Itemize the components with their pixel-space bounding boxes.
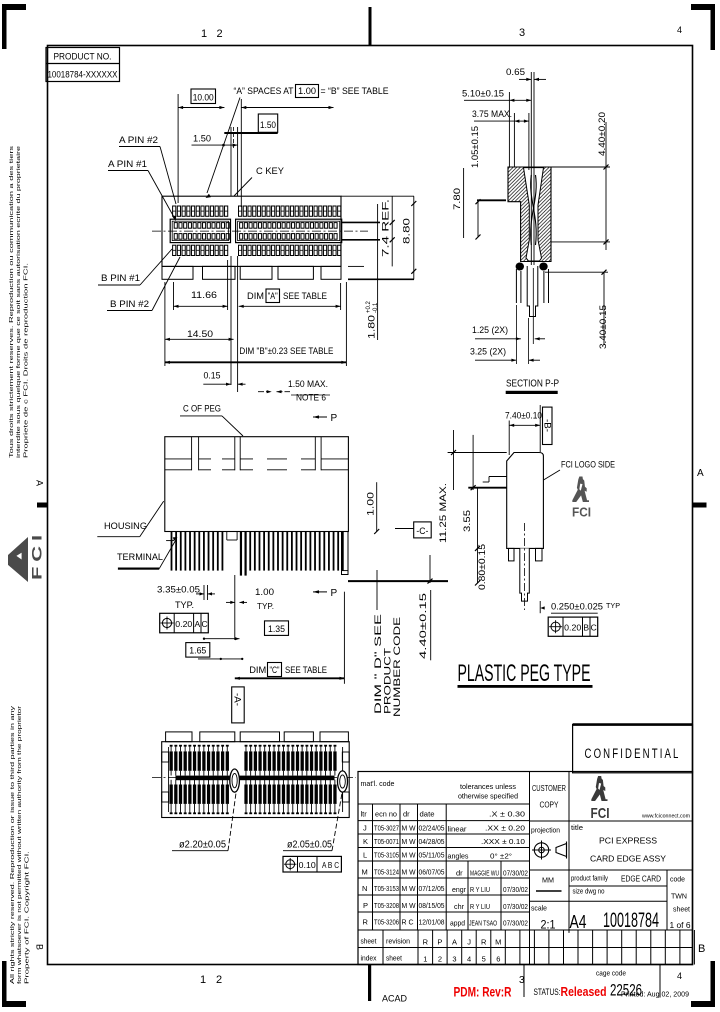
svg-text:14.50: 14.50 (187, 329, 213, 340)
svg-text:P: P (363, 901, 368, 910)
svg-text:TYP.: TYP. (257, 601, 274, 611)
svg-text:11.66: 11.66 (191, 290, 217, 301)
bottom view housing outline (162, 742, 350, 818)
svg-text:CARD EDGE ASSY: CARD EDGE ASSY (590, 854, 666, 864)
svg-text:PLASTIC PEG TYPE: PLASTIC PEG TYPE (458, 660, 591, 687)
svg-text:J: J (363, 824, 367, 833)
bottom view mounting feet top (166, 732, 192, 742)
svg-text:1: 1 (423, 955, 427, 964)
svg-text:A: A (35, 480, 45, 486)
svg-text:1.50 MAX.: 1.50 MAX. (288, 379, 328, 390)
svg-text:PCI EXPRESS: PCI EXPRESS (599, 836, 657, 846)
svg-text:= “B” SEE TABLE: = “B” SEE TABLE (321, 86, 389, 97)
svg-text:0.80±0.15: 0.80±0.15 (477, 544, 488, 590)
svg-text:B PIN #2: B PIN #2 (110, 299, 149, 310)
svg-text:4: 4 (467, 955, 471, 964)
section P-P solder bumps (516, 263, 524, 271)
corner mark bottom-right (711, 961, 716, 1007)
svg-text:PRODUCT NO.: PRODUCT NO. (54, 52, 112, 62)
svg-text:0.15: 0.15 (204, 371, 221, 382)
svg-text:R Y LIU: R Y LIU (470, 885, 490, 894)
svg-text:-A-: -A- (231, 693, 242, 706)
svg-text:0° ±2°: 0° ±2° (490, 852, 512, 861)
svg-text:EDGE CARD: EDGE CARD (621, 874, 661, 884)
svg-text:0.10: 0.10 (299, 860, 316, 870)
svg-text:"A": "A" (268, 291, 278, 302)
svg-text:M W: M W (402, 824, 417, 833)
svg-text:R C: R C (402, 918, 415, 927)
svg-text:N: N (362, 884, 367, 893)
svg-text:M W: M W (402, 837, 417, 846)
svg-text:appd: appd (450, 919, 465, 928)
svg-text:1: 1 (201, 28, 207, 40)
svg-text:ø2.05±0.05: ø2.05±0.05 (287, 840, 332, 851)
svg-text:size dwg no: size dwg no (573, 889, 605, 896)
svg-text:T05-0071: T05-0071 (374, 837, 399, 846)
svg-text:STATUS:: STATUS: (534, 987, 561, 997)
centering mark top (369, 7, 372, 45)
side view right end tail (342, 532, 349, 575)
svg-text:CONFIDENTIAL: CONFIDENTIAL (585, 746, 681, 761)
svg-text:.XXX ± 0.10: .XXX ± 0.10 (481, 837, 525, 846)
svg-text:A B C: A B C (322, 860, 339, 870)
svg-text:otherwise specified: otherwise specified (458, 792, 518, 801)
svg-text:1.50: 1.50 (193, 134, 211, 145)
svg-text:HOUSING: HOUSING (104, 521, 147, 532)
svg-text:B: B (698, 943, 705, 955)
section P-P extension lines bottom (515, 305, 517, 364)
svg-text:SEE TABLE: SEE TABLE (285, 665, 327, 676)
svg-text:B PIN #1: B PIN #1 (101, 273, 140, 284)
svg-text:07/12/05: 07/12/05 (419, 884, 445, 893)
extension lines right of top view (341, 195, 414, 197)
svg-text:0.20: 0.20 (175, 619, 192, 629)
section P-P outer prongs (515, 269, 517, 303)
peg view centerline (524, 523, 526, 610)
side view terminal step left (166, 540, 174, 542)
svg-text:07/30/02: 07/30/02 (503, 869, 528, 878)
svg-text:ø2.20±0.05: ø2.20±0.05 (179, 840, 226, 851)
svg-text:7.40±0.10: 7.40±0.10 (505, 411, 542, 422)
svg-text:1 of 6: 1 of 6 (670, 921, 692, 930)
svg-text:M W: M W (402, 851, 417, 860)
svg-text:P: P (331, 588, 338, 599)
svg-text:mat'l. code: mat'l. code (361, 779, 395, 788)
svg-text:P: P (331, 413, 338, 424)
svg-text:SEE TABLE: SEE TABLE (283, 291, 327, 302)
svg-text:COPY: COPY (540, 800, 559, 810)
svg-text:R: R (423, 938, 429, 947)
svg-text:C: C (202, 619, 208, 629)
svg-text:T05-3027: T05-3027 (374, 824, 399, 833)
svg-text:1.80: 1.80 (367, 315, 378, 339)
side view housing outline (165, 437, 349, 532)
top view B-row pad strip left block (173, 245, 176, 255)
svg-text:sheet: sheet (673, 905, 691, 914)
svg-text:4: 4 (677, 25, 682, 35)
svg-text:07/30/02: 07/30/02 (503, 902, 528, 911)
svg-text:M: M (362, 868, 368, 877)
svg-text:2: 2 (216, 974, 222, 986)
svg-text:TYP.: TYP. (175, 600, 194, 611)
product no box (46, 48, 120, 82)
svg-text:chr: chr (454, 902, 464, 911)
svg-text:10018784-XXXXXX: 10018784-XXXXXX (48, 70, 118, 80)
corner mark top-left (2, 4, 26, 10)
confidential box (573, 725, 693, 773)
title block outline (358, 772, 693, 965)
svg-text:J: J (467, 938, 471, 947)
svg-text:C: C (591, 623, 597, 633)
svg-text:.XX ± 0.20: .XX ± 0.20 (485, 824, 525, 833)
peg view bottom extension thick (430, 582, 500, 584)
corner mark top-right (691, 4, 715, 10)
svg-text:TWN: TWN (671, 892, 687, 901)
svg-text:MM: MM (542, 876, 554, 885)
svg-text:DIM: DIM (247, 291, 264, 302)
svg-text:-0.1: -0.1 (373, 302, 379, 313)
peg view latch step (489, 476, 507, 478)
svg-text:product family: product family (571, 876, 608, 883)
datum C box (414, 522, 432, 538)
top view card slot left outline (170, 219, 230, 242)
svg-text:M W: M W (402, 868, 417, 877)
svg-text:index: index (361, 954, 377, 963)
svg-text:angles: angles (448, 852, 469, 861)
dimension A spaces line (241, 107, 333, 109)
svg-text:2: 2 (217, 28, 223, 40)
svg-text:“A” SPACES AT: “A” SPACES AT (234, 86, 294, 97)
svg-text:-C-: -C- (416, 526, 428, 537)
bottom view peg hole 2.05 (338, 771, 348, 792)
dimension 10.00 boxed (191, 89, 216, 104)
svg-text:L: L (363, 851, 367, 860)
feature control frame 0.10 A B C (283, 856, 341, 872)
svg-text:-B-: -B- (541, 419, 552, 432)
svg-text:06/07/05: 06/07/05 (419, 868, 445, 877)
svg-text:C KEY: C KEY (256, 166, 285, 177)
svg-text:interdite sous quelque forme q: interdite sous quelque forme que ce soit… (16, 146, 22, 458)
svg-text:3.55: 3.55 (462, 510, 473, 532)
svg-text:sheet: sheet (361, 937, 378, 946)
svg-text:TYP: TYP (606, 601, 620, 610)
svg-text:CUSTOMER: CUSTOMER (532, 783, 566, 793)
svg-text:revision: revision (386, 937, 410, 946)
top view slot contacts upper right (240, 223, 243, 229)
svg-text:form whatsoever is not permitt: form whatsoever is not permitted without… (17, 706, 23, 984)
top view A-row pad strip right block (239, 206, 242, 216)
svg-text:Tous droits strictement reserv: Tous droits strictement reserves. Reprod… (9, 145, 15, 458)
dimension 1.50 boxed key (258, 114, 277, 132)
svg-text:A: A (452, 938, 457, 947)
svg-text:3: 3 (452, 955, 456, 964)
svg-text:5: 5 (482, 955, 486, 964)
bottom view center rib (176, 776, 335, 781)
side view terminal step key (227, 539, 237, 541)
svg-text:A PIN #2: A PIN #2 (119, 135, 158, 146)
svg-text:10.00: 10.00 (193, 93, 214, 104)
svg-text:FCI: FCI (572, 505, 591, 520)
dimension 1.65 boxed (186, 643, 210, 658)
svg-text:T05-3153: T05-3153 (374, 884, 399, 893)
svg-text:T05-3124: T05-3124 (374, 868, 399, 877)
svg-text:2:1: 2:1 (541, 920, 556, 932)
svg-text:10018784: 10018784 (603, 909, 659, 932)
svg-text:FCI LOGO SIDE: FCI LOGO SIDE (561, 460, 615, 471)
svg-text:0.20: 0.20 (564, 623, 581, 633)
svg-text:4.40±0.15: 4.40±0.15 (418, 593, 429, 659)
svg-text:title: title (571, 823, 583, 832)
svg-text:07/30/02: 07/30/02 (503, 885, 528, 894)
svg-text:sheet: sheet (386, 954, 403, 963)
svg-text:M W: M W (402, 884, 417, 893)
top view B-row pad strip right block (239, 245, 242, 255)
svg-text:Released: Released (561, 985, 607, 999)
svg-text:engr: engr (452, 885, 466, 894)
svg-text:R Y LIU: R Y LIU (470, 902, 490, 911)
svg-text:08/15/05: 08/15/05 (419, 901, 445, 910)
svg-text:cage code: cage code (596, 971, 626, 978)
svg-text:1.00: 1.00 (298, 86, 316, 97)
svg-text:SECTION P-P: SECTION P-P (506, 378, 559, 390)
leader from A spaces note to pads (207, 98, 240, 194)
feature control frame 0.20 B C (548, 617, 598, 636)
svg-text:T05-3208: T05-3208 (374, 901, 399, 910)
section P-P center tail pin (527, 266, 538, 317)
svg-text:2: 2 (438, 955, 442, 964)
svg-text:code: code (670, 875, 685, 884)
svg-text:1.50: 1.50 (260, 120, 276, 131)
svg-text:R: R (363, 918, 369, 927)
centering mark bottom (368, 964, 371, 1001)
top view centerline (152, 230, 368, 232)
svg-text:A PIN #1: A PIN #1 (108, 159, 147, 170)
svg-text:7.4 REF.: 7.4 REF. (381, 199, 392, 257)
top view slot contacts lower right (240, 234, 243, 240)
svg-text:0.250±0.025: 0.250±0.025 (551, 602, 603, 613)
svg-text:Property of FCI. Copyright F: Property of FCI. Copyright FCI. (24, 851, 30, 984)
dimension 8.80 vertical (413, 196, 415, 279)
left margin FCI logo rotated (8, 530, 45, 582)
svg-text:NOTE 6: NOTE 6 (296, 393, 326, 404)
svg-text:scale: scale (531, 904, 547, 913)
svg-text:Printed: Aug 02, 2009: Printed: Aug 02, 2009 (621, 990, 689, 999)
svg-text:.X ± 0.30: .X ± 0.30 (489, 810, 525, 819)
svg-text:0.65: 0.65 (506, 67, 525, 78)
bottom view centerline (152, 777, 356, 779)
svg-text:T05-3206: T05-3206 (374, 918, 399, 927)
svg-text:FCI: FCI (591, 805, 610, 822)
datum A box rotated (232, 687, 245, 723)
svg-text:6: 6 (496, 955, 500, 964)
svg-text:A: A (697, 468, 704, 479)
svg-text:04/28/05: 04/28/05 (419, 837, 445, 846)
svg-text:1.25 (2X): 1.25 (2X) (472, 325, 508, 336)
svg-text:3.25 (2X): 3.25 (2X) (470, 347, 506, 358)
svg-text:7.80: 7.80 (452, 188, 463, 210)
side view bottom extension line right (348, 580, 448, 582)
svg-text:dr: dr (403, 810, 410, 819)
top view mounting feet (162, 266, 193, 279)
svg-text:M: M (495, 938, 501, 947)
sheet index table cells (382, 930, 384, 965)
svg-text:B: B (583, 623, 589, 633)
svg-text:07/30/02: 07/30/02 (503, 919, 528, 928)
top view slot contacts upper left (174, 223, 177, 229)
svg-text:FCI: FCI (30, 530, 45, 580)
svg-text:1: 1 (200, 974, 206, 986)
section P-P contact pin (530, 72, 532, 265)
top view key gap extension lines (230, 127, 232, 196)
dimension 1.80 +0.2/-0.1 vertical (377, 204, 379, 340)
svg-text:All rights strictly reserved.: All rights strictly reserved. Reproducti… (10, 706, 16, 984)
section P-P contact cavity (524, 168, 544, 261)
svg-text:ACAD: ACAD (382, 994, 407, 1005)
svg-text:+0.2: +0.2 (366, 300, 372, 313)
side view top slots (191, 437, 193, 471)
bottom view terminal band B (170, 785, 173, 804)
svg-text:12/01/08: 12/01/08 (419, 918, 445, 927)
svg-text:8.80: 8.80 (402, 218, 413, 244)
key centerline dashes (233, 127, 235, 148)
svg-text:3: 3 (519, 27, 525, 39)
svg-text:02/24/05: 02/24/05 (419, 824, 445, 833)
svg-text:R: R (481, 938, 487, 947)
svg-text:PDM: Rev:R: PDM: Rev:R (454, 984, 512, 1000)
top view card slot right outline (236, 219, 342, 242)
svg-text:1.35: 1.35 (268, 624, 285, 635)
corner mark bottom-left (2, 961, 7, 1007)
svg-text:C OF PEG: C OF PEG (183, 404, 221, 415)
peg view pegs below (509, 548, 515, 561)
svg-text:1.05±0.15: 1.05±0.15 (470, 126, 481, 168)
svg-text:4: 4 (677, 971, 682, 981)
note DIM D see product number code (376, 570, 378, 610)
centering mark left (37, 503, 48, 508)
dimension 7.4 REF vertical (391, 196, 393, 266)
svg-text:dr: dr (456, 869, 463, 878)
svg-text:T05-3105: T05-3105 (374, 851, 399, 860)
svg-text:K: K (363, 837, 368, 846)
svg-text:1.00: 1.00 (255, 587, 274, 598)
svg-text:3.35±0.05: 3.35±0.05 (157, 585, 200, 596)
section arrow P bottom (313, 591, 327, 593)
svg-text:DIM "B"±0.23 SEE TABLE: DIM "B"±0.23 SEE TABLE (239, 346, 333, 357)
fci logo cell (591, 776, 607, 801)
svg-text:MAGGIE WU: MAGGIE WU (470, 869, 499, 878)
svg-text:B: B (35, 944, 45, 950)
svg-text:date: date (420, 810, 435, 819)
datum B box rotated (543, 407, 553, 444)
svg-text:3.75 MAX.: 3.75 MAX. (472, 109, 512, 120)
top view slot contacts lower left (174, 234, 177, 240)
dimension 1.35 boxed (265, 621, 289, 636)
svg-text:linear: linear (448, 825, 468, 834)
svg-text:ecn no: ecn no (375, 810, 397, 819)
bottom view peg hole 2.20 (230, 769, 240, 792)
top view housing outline (162, 196, 341, 266)
svg-text:projection: projection (531, 826, 560, 835)
centering mark right (693, 503, 707, 508)
bottom view terminal band A (170, 751, 173, 770)
svg-text:05/11/05: 05/11/05 (419, 851, 445, 860)
svg-text:3.40±0.15: 3.40±0.15 (598, 305, 609, 349)
svg-text:tolerances unless: tolerances unless (460, 782, 516, 791)
svg-text:A4: A4 (570, 912, 587, 932)
svg-text:JEAN TSAO: JEAN TSAO (469, 919, 497, 928)
peg view left extension lines (448, 452, 507, 454)
section P-P hatched housing body (508, 167, 551, 262)
svg-text:P: P (437, 938, 442, 947)
svg-text:5.10±0.15: 5.10±0.15 (462, 89, 504, 100)
svg-text:1.65: 1.65 (189, 646, 206, 657)
bottom view end brackets (168, 747, 170, 812)
feature control frame 0.20 A C (160, 613, 209, 633)
svg-text:A: A (194, 619, 200, 629)
top view A-row pad strip left block (173, 206, 176, 216)
svg-text:TERMINAL: TERMINAL (117, 552, 163, 563)
svg-text:NUMBER CODE: NUMBER CODE (392, 617, 403, 717)
svg-text:www.fciconnect.com: www.fciconnect.com (641, 814, 690, 820)
peg view FCI logo (572, 477, 589, 503)
svg-text:ltr: ltr (361, 810, 368, 819)
svg-text:Propriete de c FCI. Droits: Propriete de c FCI. Droits de reproducti… (23, 263, 29, 458)
title block grid lines (358, 803, 530, 805)
side view terminal comb (171, 532, 173, 571)
svg-text:M W: M W (402, 901, 417, 910)
svg-text:11.25 MAX.: 11.25 MAX. (438, 483, 449, 543)
peg view housing outline (507, 453, 544, 549)
cage code box below frame (523, 965, 525, 998)
svg-text:1.00: 1.00 (366, 492, 377, 516)
section arrow P top (313, 416, 327, 418)
svg-text:DIM: DIM (249, 665, 266, 676)
svg-text:"C": "C" (270, 665, 280, 676)
